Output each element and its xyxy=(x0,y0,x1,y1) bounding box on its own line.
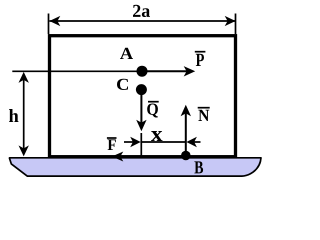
label Q vector xyxy=(147,104,158,118)
x dim outside arrow right xyxy=(193,141,201,143)
arrowhead h top xyxy=(19,72,29,83)
label F vector xyxy=(108,139,116,150)
label P vector xyxy=(196,54,204,66)
arrowhead 2a right xyxy=(225,16,236,26)
force Q arrow xyxy=(140,90,142,123)
label N vector xyxy=(198,110,209,121)
label A xyxy=(120,48,133,59)
force N arrow xyxy=(185,114,187,156)
arrowhead 2a left xyxy=(49,16,60,26)
h dimension arrow xyxy=(23,74,25,153)
extension line left (2a) xyxy=(48,14,50,35)
point C dot xyxy=(136,84,147,95)
label x xyxy=(151,131,163,141)
label 2a xyxy=(133,5,150,17)
extension line below Q xyxy=(140,133,142,156)
arrowhead h bottom xyxy=(19,145,29,156)
force F arrow xyxy=(122,156,186,158)
block rectangle xyxy=(50,36,236,157)
label h xyxy=(9,109,19,122)
label C xyxy=(117,79,128,90)
dimension line 2a xyxy=(50,20,236,22)
extension line through A (h top) xyxy=(12,70,142,72)
extension line right (2a) xyxy=(235,14,237,35)
force P arrow xyxy=(142,70,187,72)
point B dot xyxy=(181,151,191,161)
x dimension line xyxy=(141,141,186,143)
ground slab xyxy=(10,158,262,176)
x dim outside arrow left xyxy=(124,141,134,143)
label B xyxy=(194,161,203,173)
point A dot xyxy=(137,66,148,77)
